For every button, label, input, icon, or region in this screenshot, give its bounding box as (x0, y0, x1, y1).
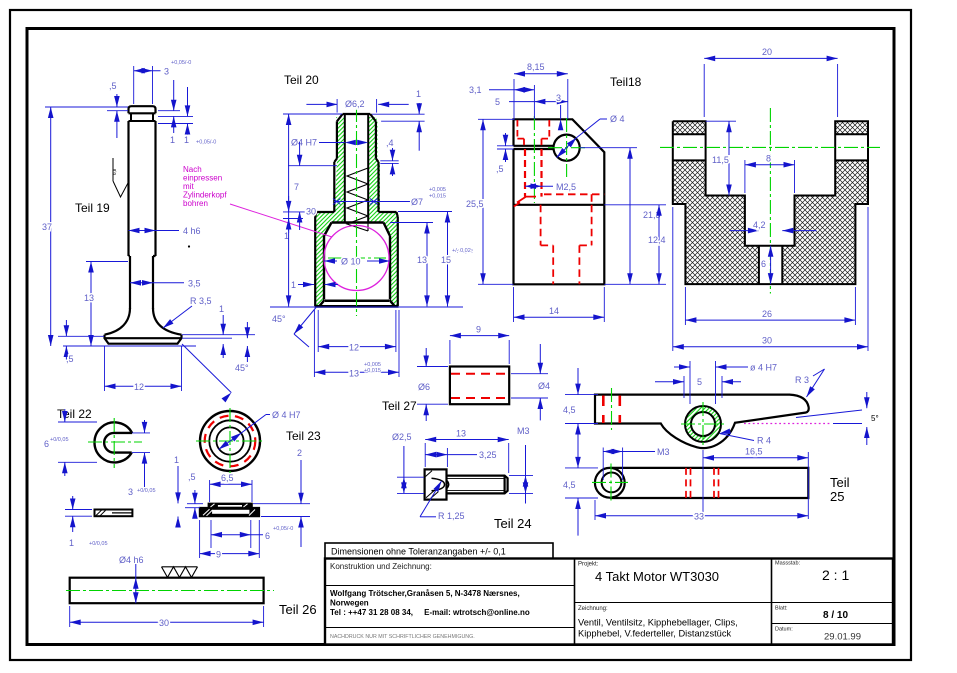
valve cap outline (129, 106, 156, 113)
svg-text:Ø 4: Ø 4 (610, 114, 625, 124)
retainer bore circle (216, 427, 243, 454)
red hidden bore (451, 374, 508, 398)
head hatch (426, 471, 439, 499)
green axis horizontal (660, 146, 880, 148)
retainer outer circle (200, 411, 260, 471)
svg-text:12: 12 (134, 382, 144, 392)
dim 6 (outer dia) (44, 409, 97, 476)
svg-text:Tel : ++47 31 28 08 34, E-: Tel : ++47 31 28 08 34, E-mail: wtrotsch… (330, 608, 530, 617)
guide outer outline (315, 114, 398, 306)
dim 1 (mouth wall) (291, 280, 338, 290)
red hidden M3 thread (side) (603, 396, 620, 424)
dim O6,2 (neck) (306, 99, 408, 113)
svg-text:+0/0,05: +0/0,05 (50, 437, 69, 443)
svg-text:45°: 45° (235, 363, 249, 373)
svg-text:12,4: 12,4 (648, 235, 666, 245)
dim 33 (595, 500, 808, 522)
dim 30 (overall) (283, 114, 342, 306)
svg-text:R 3: R 3 (795, 375, 809, 385)
svg-text:M2,5: M2,5 (556, 182, 576, 192)
svg-text:Ø7: Ø7 (411, 197, 423, 207)
svg-text:Teil 24: Teil 24 (494, 516, 532, 531)
rod outline (70, 578, 264, 604)
leader O 4 (bore) (555, 114, 625, 160)
dim 8 (745, 154, 795, 194)
svg-text:6: 6 (44, 439, 49, 449)
valve head fillet right (153, 308, 182, 335)
svg-text:0,8: 0,8 (112, 168, 117, 175)
boss circle left (595, 468, 625, 498)
green axis M3 hole (side) (611, 388, 613, 430)
dim O2,5 (392, 432, 424, 493)
svg-text:+0,005: +0,005 (429, 187, 446, 193)
svg-text:5: 5 (495, 97, 500, 107)
svg-text:2: 2 (297, 448, 302, 458)
svg-text:1: 1 (291, 280, 296, 290)
svg-text:Massstab:: Massstab: (775, 561, 801, 567)
valve head rim (105, 335, 182, 344)
dim O7 with ticks (333, 187, 446, 207)
svg-text:bohren: bohren (183, 199, 208, 208)
svg-text:5°: 5° (871, 414, 879, 423)
svg-text:7: 7 (294, 182, 299, 192)
dim 4,2 (730, 220, 817, 233)
dim 1 (top chamfer) (372, 89, 425, 151)
valve stem upper (129, 121, 156, 256)
screw shaft (447, 476, 508, 494)
dim 30 (673, 207, 868, 351)
svg-text:25: 25 (830, 489, 844, 504)
shaft thread lines (447, 479, 505, 491)
svg-text:M3: M3 (517, 426, 530, 436)
guide cavity floor and mouth (320, 300, 395, 306)
svg-text:29.01.99: 29.01.99 (824, 632, 861, 643)
C-clip outline (94, 422, 132, 462)
retainer middle circle (209, 420, 250, 461)
red hidden: M2,5 thread (525, 149, 542, 197)
green centerline vertical (356, 108, 358, 316)
dim 6,5 (210, 473, 252, 502)
svg-text:Dimensionen ohne Toleranzangab: Dimensionen ohne Toleranzangaben +/- 0,1 (331, 547, 506, 557)
svg-text:4,5: 4,5 (563, 405, 576, 415)
magenta note text (183, 165, 227, 208)
screw head (425, 469, 447, 499)
svg-text:Teil 26: Teil 26 (279, 602, 317, 617)
svg-text:13: 13 (84, 293, 94, 303)
svg-text:5: 5 (697, 377, 702, 387)
svg-text:8: 8 (766, 154, 771, 164)
dim 9 (450, 325, 509, 365)
green centerline (66, 590, 274, 592)
svg-text:R 3,5: R 3,5 (190, 296, 212, 306)
dim ,5 (185, 472, 203, 519)
boss green crosshair (681, 423, 725, 425)
guide green section hatch (316, 117, 397, 305)
dim 14 (514, 287, 605, 322)
svg-text:3: 3 (128, 487, 133, 497)
svg-text:Teil: Teil (830, 475, 850, 490)
svg-text:Teil 20: Teil 20 (284, 73, 319, 87)
svg-text:25,5: 25,5 (466, 199, 484, 209)
red hidden bore lines (686, 468, 719, 498)
red dashed spring circle (205, 416, 256, 467)
svg-text:4,2: 4,2 (753, 220, 766, 230)
svg-text:3,1: 3,1 (469, 85, 482, 95)
dim ,5 (head bottom left) (58, 320, 196, 364)
leader R 3,5 (161, 296, 211, 330)
dim ,5 (slot) (496, 133, 514, 174)
leader R 4 (719, 428, 771, 445)
bottom reference line (270, 306, 463, 308)
svg-text:Ø2,5: Ø2,5 (392, 432, 412, 442)
dim 9 (200, 520, 260, 560)
svg-text:3: 3 (164, 67, 169, 77)
svg-text:Blatt:: Blatt: (775, 606, 788, 612)
svg-text:Ø4 H7: Ø4 H7 (291, 138, 317, 148)
C-clip side view (95, 510, 133, 517)
stray dot (188, 245, 190, 247)
boss bore circle (691, 412, 715, 436)
title block: main box (325, 559, 893, 645)
green axis vertical (769, 108, 771, 294)
dim 5 deg (796, 392, 879, 445)
green centerlines bore (566, 118, 568, 177)
svg-text:+0,05/-0: +0,05/-0 (196, 140, 216, 146)
block bore lines (673, 134, 868, 160)
svg-text:Teil 27: Teil 27 (382, 399, 417, 413)
svg-text:14: 14 (549, 306, 559, 316)
svg-text:1: 1 (416, 89, 421, 99)
svg-text:R 4: R 4 (757, 436, 771, 446)
dim 15 (right shoulder) (398, 212, 473, 307)
svg-text:30: 30 (159, 618, 169, 628)
dim 5 (boss) (655, 376, 741, 398)
dim 3 (valve tip groove) (134, 60, 192, 104)
magenta chamber circle (324, 226, 389, 291)
svg-text:Teil 22: Teil 22 (57, 407, 92, 421)
dim o 4 H7 (674, 361, 777, 404)
svg-text:+0/0,05: +0/0,05 (89, 541, 108, 547)
dim O6 (417, 348, 448, 421)
dim 13 (lower stem) (84, 262, 128, 347)
svg-text:,5: ,5 (109, 81, 117, 91)
svg-text:Ø 10: Ø 10 (341, 257, 361, 267)
guide bore walls (345, 114, 368, 223)
green centerline M2,5 hole (533, 116, 535, 203)
svg-text:Ø6: Ø6 (418, 382, 430, 392)
red hidden: counterbore (517, 120, 549, 146)
red hidden: lower tenon (541, 205, 592, 284)
svg-text:12: 12 (349, 343, 359, 353)
dim 12,4 (604, 205, 666, 284)
dim 37 (overall) (42, 107, 99, 346)
svg-text:+/- 0,02: +/- 0,02 (452, 248, 471, 254)
retainer side view (200, 503, 260, 516)
dim 3,5 (lower stem) (130, 279, 201, 289)
leader R 1,25 (420, 480, 465, 521)
dim 4,5 chain left (563, 368, 598, 536)
dim 20 (704, 47, 837, 117)
dim M3 (top view) (603, 447, 669, 480)
svg-text:Norwegen: Norwegen (330, 599, 369, 608)
surface finish symbol (113, 158, 128, 197)
svg-text:R 1,25: R 1,25 (438, 511, 465, 521)
dim 6 (slot) (761, 246, 773, 284)
magenta dotted reference (744, 423, 831, 425)
bore circle O4 (554, 135, 580, 161)
svg-text:33: 33 (694, 512, 704, 522)
head socket arcs (432, 478, 449, 491)
dim 26 (685, 287, 855, 325)
leader 45 deg (valve seat chamfer) (182, 344, 249, 402)
dim 1 (174, 455, 181, 528)
red hidden: mating part top (544, 194, 604, 205)
green centerline cavity horizontal (328, 257, 386, 259)
dim 13 (mouth) (314, 310, 399, 379)
svg-text:,5: ,5 (66, 354, 74, 364)
svg-text:13: 13 (417, 255, 427, 265)
svg-text:Ø 4 H7: Ø 4 H7 (272, 410, 301, 420)
svg-text:4 Takt Motor WT3030: 4 Takt Motor WT3030 (595, 569, 719, 584)
rocker top view (592, 464, 808, 503)
svg-text:4,5: 4,5 (563, 480, 576, 490)
dim 1 (head rim right) (182, 304, 255, 362)
svg-text:+0,015: +0,015 (364, 368, 381, 374)
M3 hole (602, 473, 622, 493)
svg-text:M3: M3 (657, 447, 670, 457)
svg-text:Datum:: Datum: (775, 627, 793, 633)
tube outline (450, 367, 509, 405)
dim M2,5 (525, 182, 576, 192)
svg-text:Teil 19: Teil 19 (75, 201, 110, 215)
dim M3 (509, 426, 533, 504)
svg-text:,5: ,5 (188, 472, 196, 482)
svg-text:20: 20 (762, 47, 772, 57)
boss outer circle (685, 406, 721, 442)
svg-text:9: 9 (216, 550, 221, 560)
dim 4 h6 (stem) (129, 226, 201, 236)
dim 13 (right cavity) (390, 223, 433, 307)
dim O4 h6 (119, 555, 144, 603)
dim 21,3 (580, 148, 666, 285)
svg-text:1: 1 (219, 304, 224, 314)
dim ,5 (cap top) (99, 81, 128, 138)
guide bottom edge (315, 305, 399, 308)
svg-text:ø 4 H7: ø 4 H7 (750, 363, 777, 373)
svg-text:Konstruktion und Zeichnung:: Konstruktion und Zeichnung: (330, 562, 432, 571)
leader 45 deg (mouth chamfer) (272, 308, 316, 348)
dim 12 (body) (318, 310, 396, 353)
thread zigzag in bore (347, 168, 368, 231)
svg-text:45°: 45° (272, 314, 286, 324)
svg-text:Kipphebel, V.federteller, Dist: Kipphebel, V.federteller, Distanzstück (578, 629, 731, 639)
valve stem lower (130, 256, 153, 309)
svg-text:1: 1 (170, 135, 175, 145)
svg-text:16,5: 16,5 (745, 447, 763, 457)
svg-text:6: 6 (761, 259, 766, 269)
svg-text:3,25: 3,25 (479, 450, 497, 460)
dim 8,15 (514, 62, 568, 120)
dim 30 (70, 606, 264, 628)
dim 3 (slot) (128, 420, 156, 497)
dim 3,25 (425, 448, 496, 467)
svg-text:15: 15 (441, 255, 451, 265)
svg-text:13: 13 (349, 369, 359, 379)
bracket outline (514, 119, 605, 284)
svg-text:1: 1 (184, 135, 189, 145)
dim 25,5 (452, 119, 514, 284)
svg-text:Wolfgang Trötscher,Granåsen 5,: Wolfgang Trötscher,Granåsen 5, N-3478 Næ… (330, 589, 520, 598)
thread triangles (162, 567, 198, 578)
dim 7 (left) (288, 142, 337, 230)
svg-text:4 h6: 4 h6 (183, 226, 201, 236)
dim 11,5 (706, 121, 736, 195)
svg-text:6,5: 6,5 (221, 473, 234, 483)
dim 13 (425, 429, 509, 474)
guide cavity (324, 223, 390, 300)
svg-text:3,5: 3,5 (188, 279, 201, 289)
dim 6 (cone) (211, 520, 293, 548)
dim 1 (thickness) (65, 496, 108, 548)
svg-text:2 : 1: 2 : 1 (822, 567, 849, 583)
svg-text:8,15: 8,15 (527, 62, 545, 72)
split line (514, 204, 605, 206)
svg-text:Ø4: Ø4 (538, 381, 550, 391)
svg-text:6: 6 (265, 531, 270, 541)
svg-text:1: 1 (69, 538, 74, 548)
svg-text:8 / 10: 8 / 10 (823, 610, 848, 621)
dim O4 (511, 344, 550, 420)
magenta leader (230, 204, 332, 237)
svg-text:Ø6,2: Ø6,2 (345, 99, 365, 109)
rocker boss ring hatch (685, 406, 721, 442)
dim 1 1 (tip grooves right) (158, 80, 216, 146)
svg-text:+0,015: +0,015 (429, 194, 446, 200)
green crosshair (196, 440, 264, 442)
block outline (673, 121, 868, 284)
svg-text:+0,05/-0: +0,05/-0 (273, 526, 293, 532)
svg-text:3: 3 (556, 93, 561, 103)
svg-text:Teil 23: Teil 23 (286, 429, 321, 443)
svg-text:Ventil, Ventilsitz, Kipphebell: Ventil, Ventilsitz, Kipphebellager, Clip… (578, 618, 738, 628)
rocker side view outline (595, 395, 809, 449)
svg-text:30: 30 (306, 207, 316, 217)
svg-text:13: 13 (456, 429, 466, 439)
dim 1 (shoulder chamfer) (283, 196, 315, 241)
dim O4 H7 (bore) (291, 138, 368, 148)
green crosshair (88, 441, 142, 443)
svg-text:,4: ,4 (386, 138, 394, 148)
svg-text:37: 37 (42, 222, 52, 232)
svg-text:9: 9 (476, 325, 481, 335)
svg-text:26: 26 (762, 309, 772, 319)
leader O 4 H7 (217, 410, 301, 452)
svg-text:Zeichnung:: Zeichnung: (578, 606, 608, 612)
svg-text:+0,05/-0: +0,05/-0 (171, 60, 191, 66)
dim 3,1 (469, 85, 534, 119)
dim 16,5 (703, 447, 808, 520)
block section hatch (673, 121, 868, 284)
green crosshair (592, 481, 628, 483)
dim 3 (counterbore depth) (556, 93, 563, 130)
svg-text:+0/0,05: +0/0,05 (137, 488, 156, 494)
svg-text:Projekt:: Projekt: (578, 562, 599, 568)
svg-text:Teil18: Teil18 (610, 75, 642, 89)
red hidden: thread exit (514, 197, 536, 207)
dim 5 (495, 97, 568, 107)
dim 12 (head dia) (105, 346, 182, 392)
dim O 10 (cavity) (324, 257, 390, 267)
title block: tolerance note box (325, 543, 553, 559)
leader R 3 (795, 369, 825, 399)
dim ,4 (step) (380, 138, 398, 176)
valve head fillet left (105, 308, 131, 335)
svg-text:NACHDRUCK NUR MIT SCHRIFTLICHE: NACHDRUCK NUR MIT SCHRIFTLICHER GENEHMIG… (330, 634, 475, 640)
svg-text:,5: ,5 (496, 164, 504, 174)
dim 2 (253, 448, 310, 547)
svg-text:Ø4 h6: Ø4 h6 (119, 555, 144, 565)
svg-text:30: 30 (762, 336, 772, 346)
svg-text:1: 1 (174, 455, 179, 465)
valve groove (129, 113, 156, 121)
svg-text:11,5: 11,5 (712, 155, 729, 165)
